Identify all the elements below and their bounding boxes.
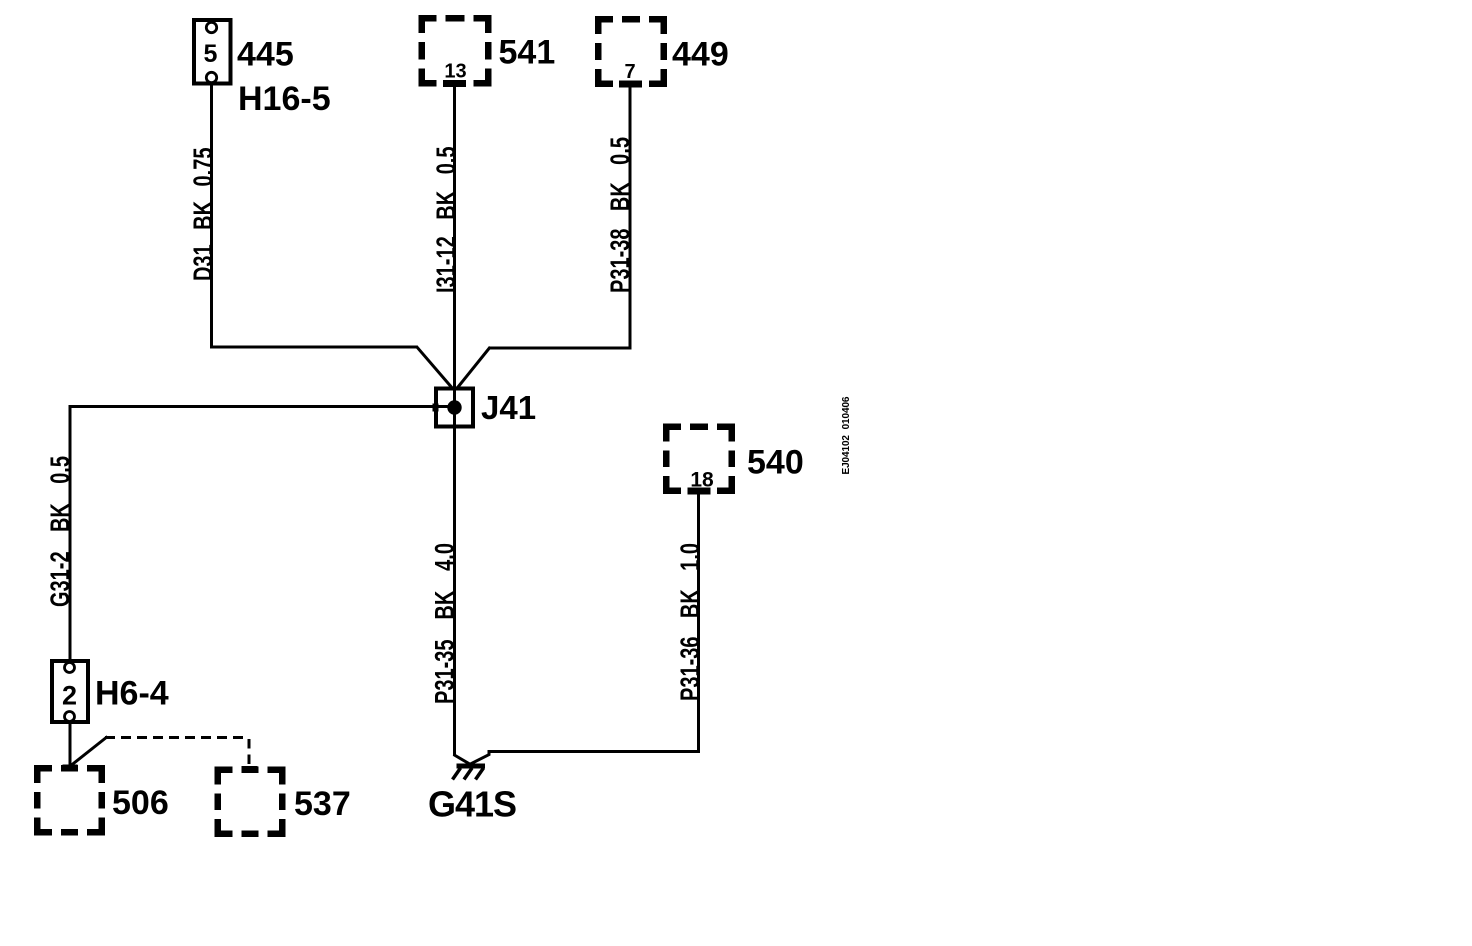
tick at 449 pin exit xyxy=(619,81,642,88)
svg-text:P31-35 BK 4.0: P31-35 BK 4.0 xyxy=(430,543,461,704)
svg-text:540: 540 xyxy=(747,444,804,482)
connector 449 (dashed box, pin 7) xyxy=(595,16,667,87)
svg-text:G41S: G41S xyxy=(428,784,516,825)
svg-text:445: 445 xyxy=(237,36,294,74)
svg-text:5: 5 xyxy=(204,40,218,68)
svg-text:H16-5: H16-5 xyxy=(238,80,331,118)
svg-text:7: 7 xyxy=(624,61,635,83)
wire P31-36 BK 1.0 from 540 to ground G41S xyxy=(470,494,700,764)
svg-text:449: 449 xyxy=(672,36,729,74)
tick at 541 pin exit xyxy=(443,80,466,87)
connector 541 (dashed box, pin 13) xyxy=(419,15,492,87)
svg-text:P31-38 BK 0.5: P31-38 BK 0.5 xyxy=(605,137,636,293)
svg-text:2: 2 xyxy=(62,681,77,711)
entry tick at 506 xyxy=(63,765,78,772)
svg-text:J41: J41 xyxy=(481,389,536,426)
wire G31-2 BK 0.5 from J41 left branch to H6-4 xyxy=(70,405,452,661)
svg-text:537: 537 xyxy=(294,785,351,823)
wire P31-38 BK 0.5 from 449 to J41 xyxy=(456,87,631,390)
connector 506 (dashed box) xyxy=(34,765,105,836)
ground symbol G41S xyxy=(453,764,486,780)
svg-text:506: 506 xyxy=(112,784,169,822)
wire joint into ground xyxy=(454,755,471,765)
svg-text:541: 541 xyxy=(499,34,556,72)
connector H16-5 pin 5 (component 445) xyxy=(194,20,231,84)
svg-text:D31 BK 0.75: D31 BK 0.75 xyxy=(188,148,219,282)
svg-text:H6-4: H6-4 xyxy=(95,675,169,713)
wire from H6-4 to 506 xyxy=(69,722,72,766)
svg-text:13: 13 xyxy=(444,61,466,83)
svg-text:EJ04102 010406: EJ04102 010406 xyxy=(841,396,852,474)
tick at 540 pin exit xyxy=(688,488,711,495)
connector 540 (dashed box, pin 18) xyxy=(663,424,735,495)
svg-text:G31-2 BK 0.5: G31-2 BK 0.5 xyxy=(45,456,76,607)
svg-text:I31-12 BK 0.5: I31-12 BK 0.5 xyxy=(431,147,462,293)
wire I31-12 BK 0.5 from 541 through J41 to ground xyxy=(453,86,456,756)
entry tick at 537 xyxy=(242,766,258,773)
junction J41 (box with solder dot) xyxy=(433,389,474,427)
wire D31 BK 0.75 from H16-5 to J41 xyxy=(210,83,454,390)
connector H6-4 pin 2 xyxy=(52,661,88,722)
svg-text:P31-36 BK 1.0: P31-36 BK 1.0 xyxy=(675,543,706,701)
branch wire from 506 node to 537 (dashed) xyxy=(69,737,249,768)
connector 537 (dashed box) xyxy=(215,767,286,838)
